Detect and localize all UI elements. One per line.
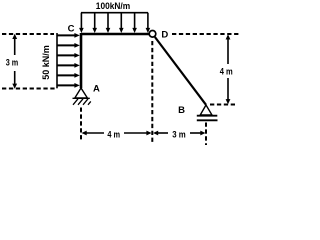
load: side arrow 1: [57, 33, 80, 38]
svg-text:3 m: 3 m: [6, 58, 19, 69]
load: side arrow 6: [57, 83, 80, 88]
support: upper ground line at B: [197, 115, 218, 117]
svg-text:3 m: 3 m: [172, 130, 186, 141]
dimension: bottom 3 m left segment with left arrow: [153, 131, 168, 136]
svg-text:50 kN/m: 50 kN/m: [41, 45, 52, 80]
member: beam C-D: [81, 33, 149, 36]
svg-text:100kN/m: 100kN/m: [96, 1, 130, 12]
svg-text:C: C: [68, 24, 75, 35]
dimension: left 3 m lower segment with down arrow: [12, 71, 17, 89]
load: UDL arrow 2: [92, 13, 97, 33]
wire: dashed level line right of B: [210, 104, 236, 106]
load: UDL arrow 4: [119, 13, 124, 33]
load: side arrow 5: [57, 73, 80, 78]
load: UDL arrow 5: [132, 13, 137, 33]
svg-text:B: B: [178, 105, 185, 116]
dimension: bottom 4 m left segment with left arrow: [82, 131, 105, 136]
support: hatching at A: [73, 99, 91, 105]
support: pin at A triangle: [75, 88, 88, 98]
load: UDL arrow 1: [79, 13, 84, 33]
svg-text:A: A: [93, 84, 100, 95]
hinge: internal hinge circle at D: [149, 31, 156, 38]
dimension: left 3 m upper segment with up arrow: [12, 34, 17, 55]
support: ground line at A: [73, 97, 90, 99]
load: UDL arrow 6: [146, 13, 151, 33]
load: UDL arrow 3: [106, 13, 111, 33]
wire: vertical dashed projection below B: [205, 123, 207, 146]
support: lower ground line at B: [197, 119, 218, 121]
dimension: right 4 m lower segment with down arrow: [226, 78, 231, 104]
member: inclined strut D-B: [155, 37, 206, 105]
load: side arrow 2: [57, 43, 80, 48]
wire: dashed level line left of C: [2, 33, 54, 35]
svg-text:4 m: 4 m: [220, 66, 233, 77]
wire: dashed level line right of D: [172, 33, 241, 35]
wire: dashed base line left of A: [2, 88, 56, 90]
wire: vertical dashed projection below D: [151, 41, 153, 144]
load: 100kN/m UDL top line: [81, 12, 148, 14]
svg-text:D: D: [161, 30, 168, 41]
wire: vertical dashed projection below A: [80, 108, 82, 142]
load: 50 kN/m side UDL boundary line: [56, 33, 58, 88]
member: column A-C: [80, 33, 83, 88]
dimension: bottom 3 m right segment with right arrow: [190, 131, 206, 136]
dimension: right 4 m upper segment with up arrow: [226, 34, 231, 64]
svg-text:4 m: 4 m: [107, 130, 120, 141]
support: roller at B triangle: [200, 105, 212, 115]
dimension: bottom 4 m right segment with right arrow: [124, 131, 152, 136]
load: side arrow 3: [57, 53, 80, 58]
load: side arrow 4: [57, 63, 80, 68]
